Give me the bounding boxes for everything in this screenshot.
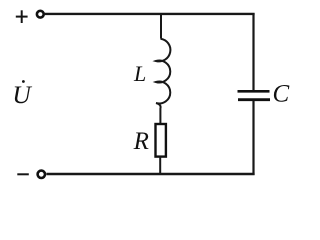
resistor R body (156, 124, 166, 157)
capacitor C bottom plate (238, 98, 270, 101)
wire right vertical (bottom half) (252, 101, 254, 175)
wire bottom (46, 173, 254, 176)
svg-text:R: R (133, 128, 149, 155)
svg-text:L: L (133, 61, 146, 86)
plus sign (16, 10, 28, 23)
wire right vertical (top half) (252, 13, 254, 90)
terminal - (bottom left open circle) (38, 171, 45, 178)
svg-text:U: U (12, 80, 32, 109)
minus sign (17, 173, 29, 175)
terminal + (top left open circle) (37, 11, 44, 18)
svg-text:C: C (273, 81, 290, 108)
wire middle branch top (160, 13, 162, 39)
dot of U (22, 80, 25, 83)
wire middle branch bottom (159, 157, 161, 176)
inductor L coil (156, 39, 170, 124)
capacitor C top plate (238, 90, 270, 93)
wire top (45, 13, 255, 15)
